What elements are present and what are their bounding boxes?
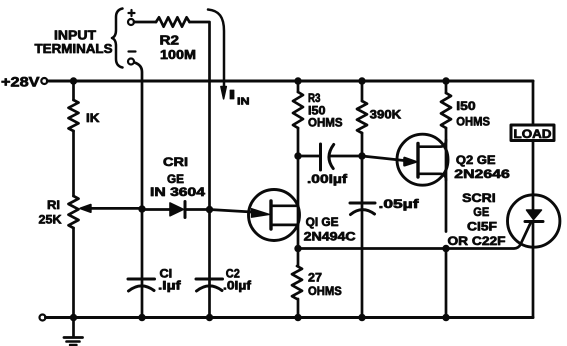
svg-text:100M: 100M [160,48,196,62]
SCR [508,195,560,247]
svg-text:R2: R2 [160,34,180,48]
node junction C1 / bottom rail [138,314,145,321]
node + input terminal [128,19,134,25]
svg-text:25K: 25K [39,213,62,227]
node junction 390K bus / bottom rail [358,314,365,321]
resistor R1 potentiometer [69,196,79,228]
wire to Q1 emitter [210,210,253,213]
svg-text:OHMS: OHMS [456,114,490,128]
svg-text:27: 27 [308,271,322,285]
transistor Q1 [249,190,300,241]
load box [511,125,554,141]
svg-text:LOAD: LOAD [514,127,552,141]
node junction R3 bus / gate wire [294,245,301,252]
wire left bus segments [72,81,75,318]
wire .001uf branch [298,155,362,158]
svg-text:GE: GE [473,205,489,219]
wire Q2 emitter [362,156,404,161]
svg-text:I: I [229,87,236,102]
node junction R3 bus / .001uf wire [294,152,301,159]
node junction 390K bus / emitter wire [358,152,365,159]
wire 150 ohm bus [445,81,448,318]
node junction bottom rail / R1 [70,314,77,321]
svg-text:TERMINALS: TERMINALS [35,42,113,56]
svg-text:+28V: +28V [1,75,40,90]
svg-text:CI5F: CI5F [467,220,497,234]
resistor 27 OHMS [292,266,302,299]
wire + terminal to R2 [134,21,156,24]
svg-text:.0Iµf: .0Iµf [223,279,252,293]
wire - terminal to C1 bus [135,63,143,318]
svg-text:IK: IK [86,111,100,125]
brace input terminals [112,9,123,68]
node ground terminal bottom-left [40,315,46,321]
node - input terminal [128,59,134,65]
svg-text:RI: RI [47,198,60,212]
wire 390K bus [361,81,364,318]
capacitor .05uf [350,202,375,205]
wire diode branch [142,208,210,211]
svg-text:.Iµf: .Iµf [158,279,182,293]
wire bottom rail (ground bus) [46,316,534,319]
svg-text:OHMS: OHMS [308,116,343,130]
capacitor .001uf [319,144,322,170]
svg-text:IN 3604: IN 3604 [150,185,205,199]
node junction 390K bus / top rail [358,77,365,84]
svg-text:2N494C: 2N494C [304,230,356,244]
node junction top rail / 1K [70,77,77,84]
wire R2 to C2 bus [190,22,210,318]
wire R1 wiper arm [90,207,142,210]
resistor 150 OHMS [441,93,451,128]
node +28V terminal [41,78,47,84]
svg-text:Q2 GE: Q2 GE [456,153,496,167]
node junction 150 bus / gate wire [442,245,449,252]
wire I_IN indicator [208,10,224,89]
svg-text:390K: 390K [370,108,402,122]
wire top rail +28V [47,80,533,83]
node junction diode / C2 bus [206,206,213,213]
node junction R3 bus / bottom rail [294,314,301,321]
svg-text:I50: I50 [456,99,476,113]
resistor R2 [156,17,190,26]
diode CR1 [170,203,183,216]
svg-text:.05µf: .05µf [379,197,420,211]
svg-text:IN: IN [237,97,250,108]
node junction top rail / R3 [294,77,301,84]
node junction wiper / C1 bus [138,205,145,212]
node junction C2 / bottom rail [206,314,213,321]
svg-text:OR C22F: OR C22F [448,234,506,248]
capacitor C2 [196,278,223,281]
svg-text:GE: GE [167,172,184,186]
node junction 150 bus / top rail [442,77,449,84]
svg-text:SCRI: SCRI [462,191,495,205]
svg-text:CRI: CRI [163,155,188,169]
svg-text:OHMS: OHMS [308,284,342,298]
svg-text:INPUT: INPUT [54,28,96,42]
wire R3 bus [297,81,300,318]
resistor 1K [69,100,79,131]
wire right bus (load branch) [532,81,535,318]
ground [64,318,83,346]
svg-text:.00Iµf: .00Iµf [307,172,348,186]
svg-text:2N2646: 2N2646 [454,167,510,181]
svg-text:QI GE: QI GE [306,215,339,229]
wire SCR gate branch [298,222,531,249]
resistor R3 150 OHMS [293,92,303,128]
capacitor C1 [128,278,155,281]
resistor 390K [357,101,367,133]
node junction 150 bus / bottom rail [442,314,449,321]
transistor Q2 [397,134,448,185]
